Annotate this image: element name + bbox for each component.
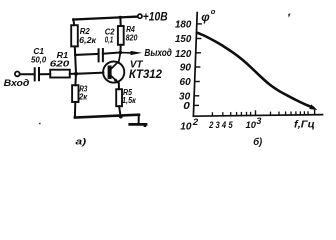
svg-text:3: 3 [256, 116, 261, 126]
wire rail corner down to R2 [72, 19, 75, 25]
svg-text:90: 90 [180, 63, 192, 74]
speck above graph [288, 13, 290, 17]
resistor R4 [118, 26, 124, 45]
wire base node down to R3 [74, 74, 77, 85]
wire R1 to base node [70, 73, 76, 75]
node collector junction [119, 51, 123, 55]
y tick 150 [196, 38, 200, 40]
node bottom rail junction [119, 115, 123, 119]
svg-text:60: 60 [180, 77, 192, 88]
x major tick 10^3 [255, 111, 257, 115]
svg-text:б): б) [253, 136, 262, 148]
y axis [193, 13, 197, 117]
wire input to C1 [20, 73, 34, 75]
y tick 180 [197, 23, 201, 25]
terminal +10V [138, 14, 142, 18]
svg-text:φ: φ [201, 10, 210, 24]
svg-text:10: 10 [246, 120, 257, 131]
wire R4 bottom to collector node [119, 45, 121, 53]
speck right of +10V [177, 20, 180, 25]
y tick 120 [196, 52, 200, 54]
wire C2 tap to C2 [75, 54, 98, 55]
y tick 0 [194, 104, 198, 106]
svg-text:50,0: 50,0 [31, 54, 46, 64]
transistor base bar [108, 68, 112, 78]
wire top rail [73, 17, 137, 20]
node C2 tap [74, 54, 77, 57]
resistor R3 [72, 85, 78, 102]
x axis [193, 115, 322, 117]
wire R2 bottom to base node [75, 46, 76, 73]
wire base node to transistor [76, 73, 103, 74]
transistor collector lead [110, 53, 120, 70]
x minor ticks decade 1 [211, 113, 213, 116]
svg-text:o: o [211, 7, 216, 16]
wire R4 top [119, 17, 121, 26]
node top rail / R4 junction [119, 16, 122, 19]
svg-text:120: 120 [175, 49, 192, 60]
svg-text:150: 150 [175, 34, 192, 45]
svg-text:6,2к: 6,2к [79, 35, 96, 45]
svg-text:0,1: 0,1 [105, 34, 114, 44]
svg-text:10: 10 [180, 122, 192, 133]
wire C1 to R1 [39, 73, 50, 75]
terminal input [15, 72, 20, 77]
speck near bottom rail [39, 123, 41, 125]
svg-text:1,5к: 1,5к [122, 95, 136, 105]
curve phase response [198, 33, 314, 108]
wire emitter to R5 [118, 83, 120, 89]
svg-text:0: 0 [183, 101, 190, 112]
wire R5 bottom to rail [119, 106, 121, 116]
y tick 30 [194, 95, 198, 97]
resistor R2 [71, 25, 78, 46]
capacitor C1 [35, 68, 39, 80]
svg-text:2: 2 [192, 117, 198, 127]
capacitor C2 [99, 49, 103, 61]
transistor emitter lead with arrow [110, 75, 118, 83]
svg-text:+10В: +10В [143, 12, 168, 24]
svg-text:820: 820 [126, 33, 138, 43]
wire C2 to collector node [103, 53, 121, 54]
resistor R5 [116, 89, 122, 106]
y tick 60 [195, 81, 199, 83]
svg-text:620: 620 [50, 58, 70, 68]
ground [138, 115, 140, 123]
svg-text:2 3 4 5: 2 3 4 5 [208, 120, 233, 130]
wire R3 bottom to ground rail [74, 102, 76, 117]
svg-text:а): а) [76, 136, 87, 147]
x major tick 10^4 [314, 110, 316, 114]
svg-text:Выход: Выход [144, 48, 172, 59]
wire output with arrow [120, 52, 131, 54]
svg-text:f,Гц: f,Гц [294, 120, 315, 131]
x minor ticks decade 2 [270, 112, 272, 115]
node base junction [74, 72, 78, 76]
wire bottom rail [75, 115, 139, 118]
svg-text:2к: 2к [78, 91, 88, 101]
curve end arrowhead [309, 104, 317, 110]
svg-text:КТ312: КТ312 [129, 68, 163, 81]
resistor R1 [50, 70, 70, 78]
svg-text:Вход: Вход [4, 78, 30, 88]
transistor VT KT312 body [103, 62, 124, 83]
y tick 90 [195, 66, 199, 68]
